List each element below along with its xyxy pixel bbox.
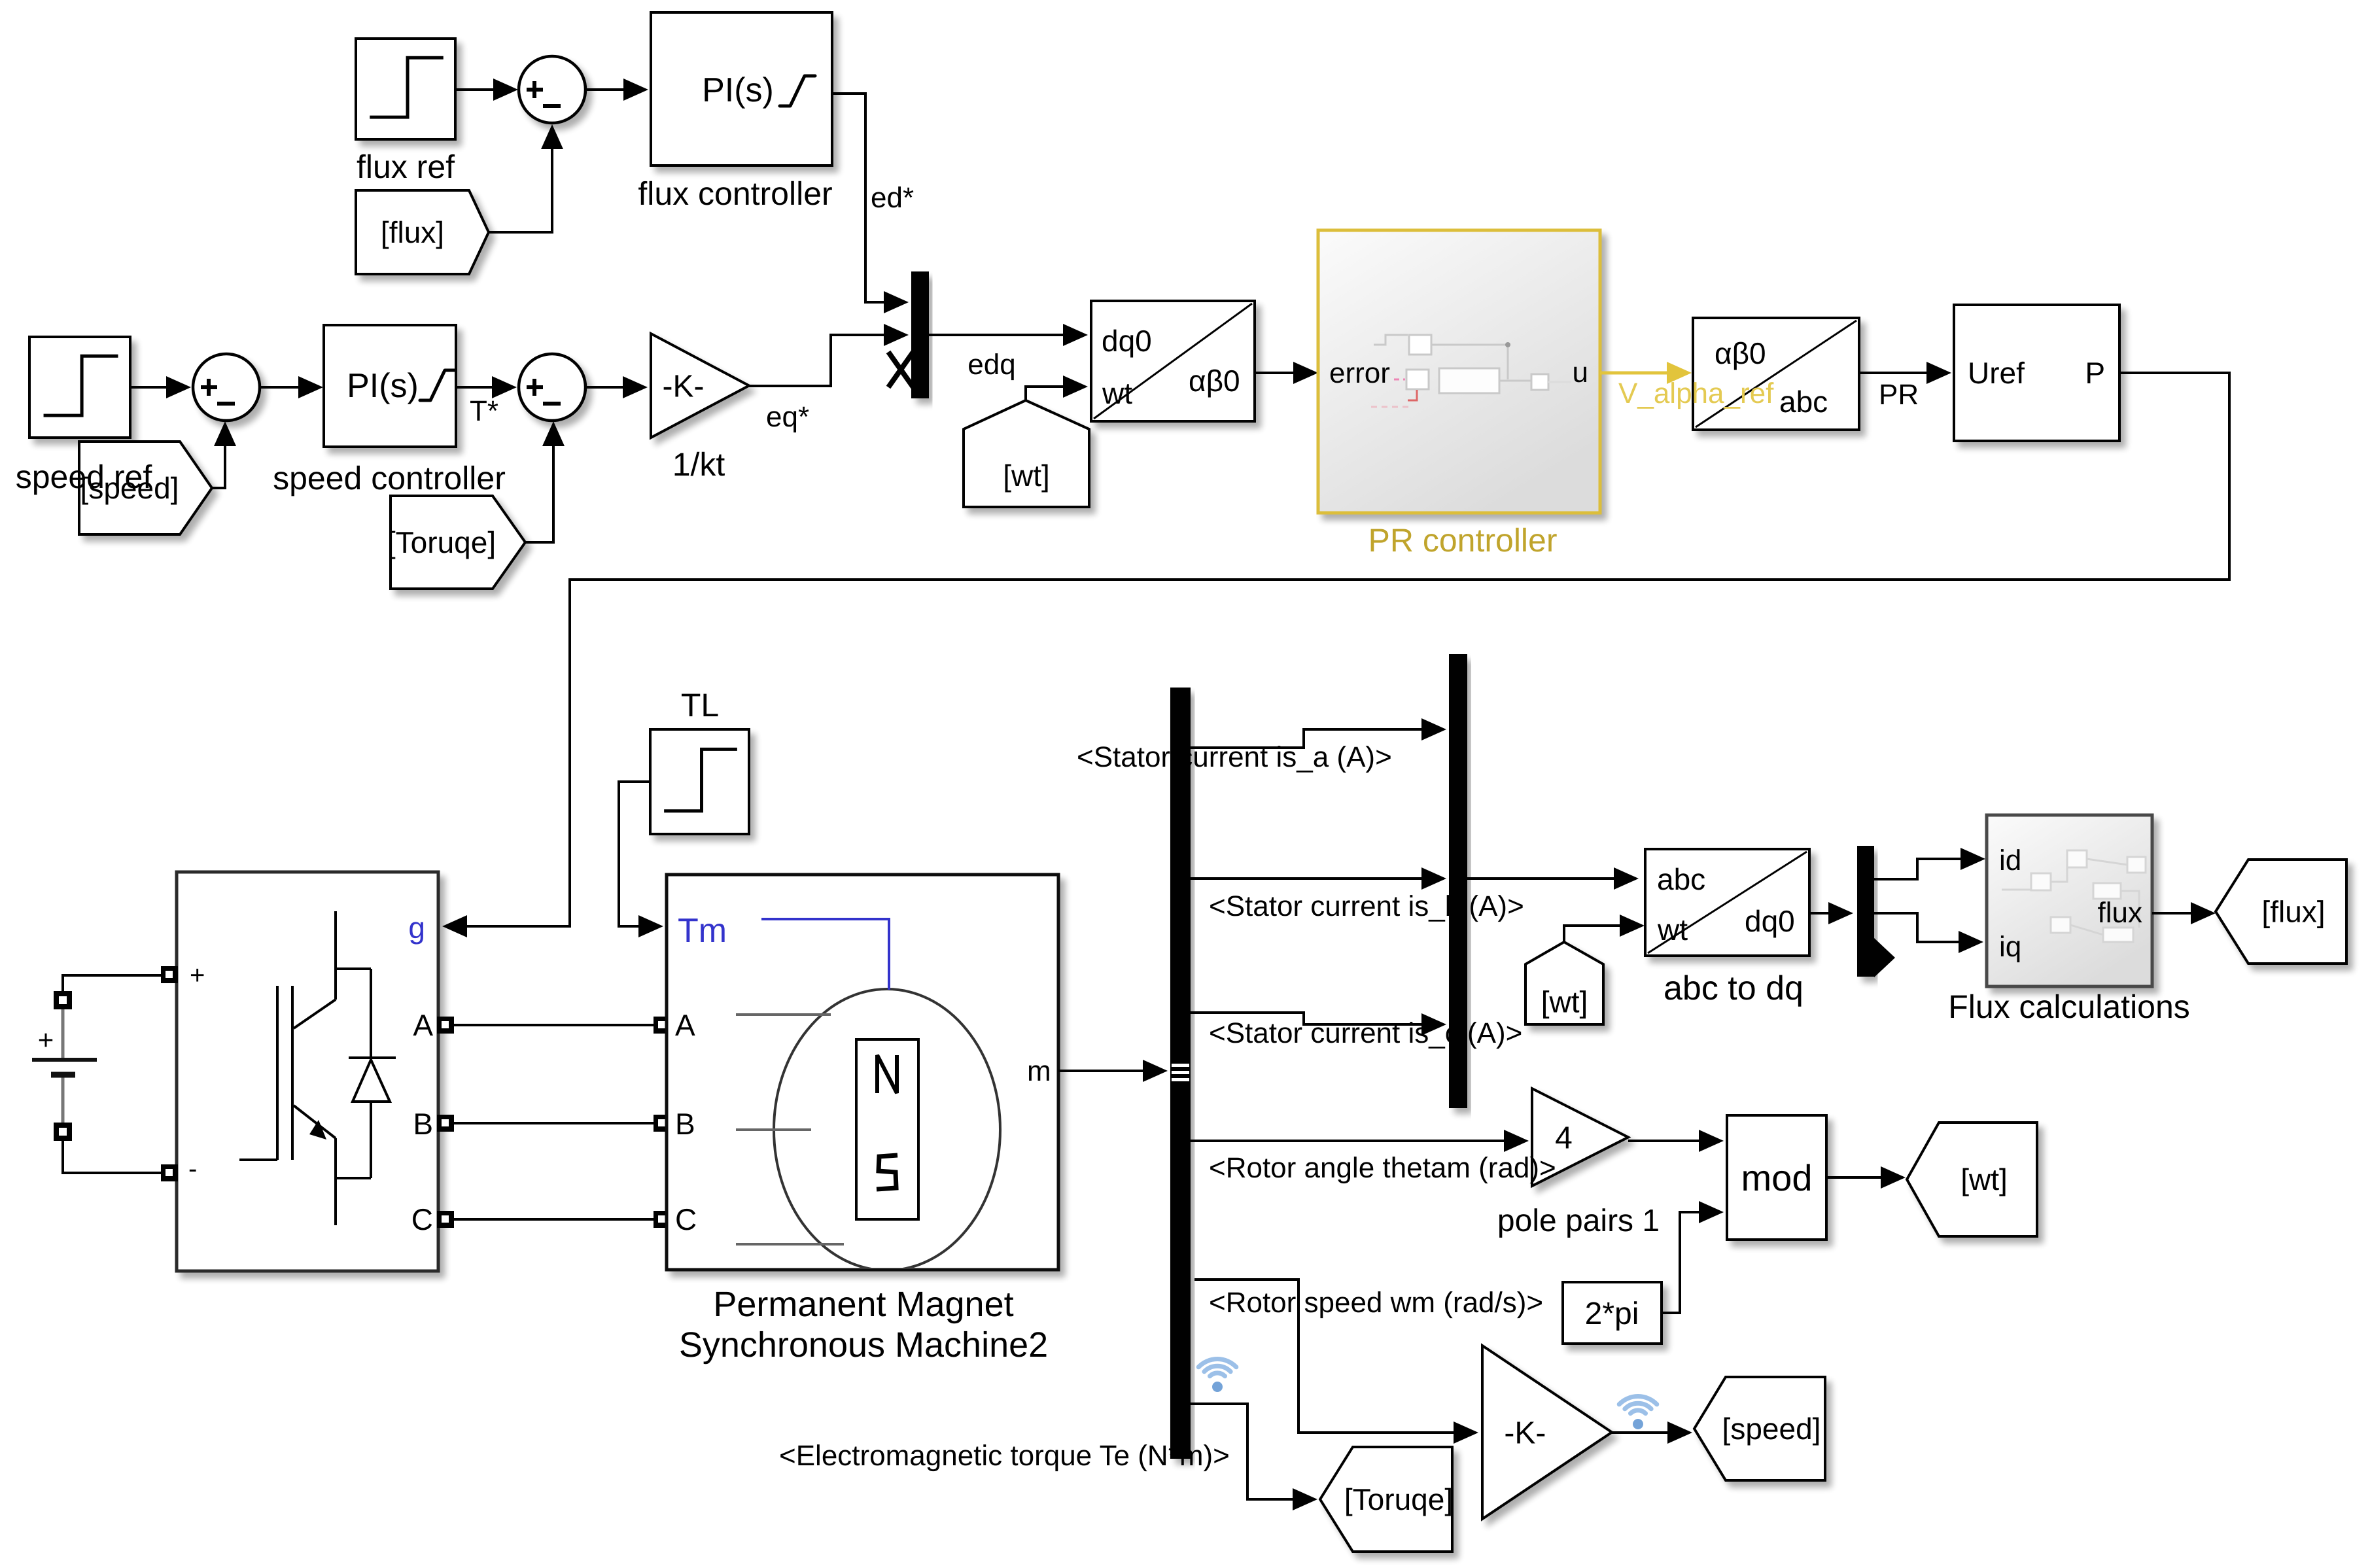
wifi icon on bus selector [1198, 1359, 1236, 1392]
svg-text:V_alpha_ref: V_alpha_ref [1618, 377, 1774, 409]
label abc to dq [1664, 969, 1804, 1007]
wire is_b bus selector to mux M2 [1191, 867, 1446, 890]
signal label PR [1879, 379, 1919, 411]
svg-text:αβ0: αβ0 [1715, 336, 1766, 370]
wire -K- to [speed] [1612, 1421, 1692, 1444]
wire flux controller to mux1 in1 [832, 94, 909, 313]
wire mux1 to dq0-ab0 block [929, 324, 1088, 346]
subsystem block Uref P [1954, 305, 2119, 441]
svg-text:iq: iq [1999, 931, 2021, 963]
svg-text:[Toruqe]: [Toruqe] [387, 525, 496, 559]
Goto tag [flux] [2216, 860, 2346, 964]
signal label T* [470, 395, 498, 427]
svg-text:wt: wt [1657, 913, 1688, 947]
wire torque to [Toruqe] [1191, 1404, 1317, 1510]
label speed ref [16, 459, 152, 495]
wire PR controller to ab0-abc (yellow) [1600, 362, 1692, 384]
wire speed controller to sum3 [456, 376, 517, 398]
demux bar D1 [1857, 846, 1895, 977]
signal label eq* [766, 401, 809, 433]
svg-text:error: error [1329, 357, 1390, 389]
svg-text:speed ref: speed ref [16, 459, 152, 495]
From tag [Toruqe] [387, 496, 525, 589]
svg-text:4: 4 [1555, 1121, 1573, 1155]
svg-text:[Toruqe]: [Toruqe] [1344, 1482, 1453, 1516]
wifi icon before [speed] [1619, 1397, 1657, 1429]
svg-text:mod: mod [1741, 1157, 1813, 1198]
svg-text:T*: T* [470, 395, 498, 427]
svg-text:Permanent Magnet: Permanent Magnet [713, 1285, 1013, 1324]
svg-text:PI(s): PI(s) [347, 367, 419, 405]
wire gain 4 to mod [1628, 1130, 1724, 1152]
wire step flux ref to sum1 [455, 78, 518, 101]
svg-text:[flux]: [flux] [2261, 895, 2325, 929]
svg-text:-K-: -K- [663, 369, 705, 404]
step source block flux ref [356, 39, 455, 139]
signal label Stator current is_b [1209, 890, 1524, 922]
svg-text:TL: TL [681, 687, 719, 723]
wire PMSM m to bus selector [1058, 1060, 1168, 1082]
mux M1 bar [911, 271, 929, 398]
wire [speed] to sum2 [212, 421, 236, 488]
wire dq0-ab0 to PR controller [1255, 362, 1318, 384]
svg-text:[flux]: [flux] [381, 215, 444, 249]
three-phase wire C inverter to PMSM [437, 1211, 671, 1228]
svg-text:<Rotor angle thetam (rad)>: <Rotor angle thetam (rad)> [1209, 1152, 1556, 1184]
wire demux iq to Flux calculations [1874, 913, 1983, 953]
step source block TL [650, 729, 749, 834]
transform block abc to dq0 [1645, 849, 1809, 956]
svg-text:[wt]: [wt] [1003, 459, 1050, 493]
three-phase wire A inverter to PMSM [437, 1017, 671, 1034]
svg-text:PR: PR [1879, 379, 1919, 411]
bus selector bar B1 [1170, 688, 1191, 1459]
Goto tag [speed] [1694, 1377, 1825, 1480]
svg-text:PI(s): PI(s) [702, 71, 774, 109]
wire rotor speed to gain -K- [1194, 1280, 1478, 1444]
unconnected port X on mux M1 [888, 352, 913, 387]
subsystem block PR controller [1318, 230, 1600, 513]
wire Uref P return to inverter g [442, 373, 2229, 937]
svg-text:Uref: Uref [1968, 356, 2025, 390]
label pole pairs 1 [1497, 1204, 1660, 1238]
svg-text:-: - [188, 1155, 197, 1183]
sum junction S3 (torque error) [519, 354, 585, 421]
constant block 2*pi [1563, 1282, 1662, 1344]
svg-text:[wt]: [wt] [1960, 1162, 2008, 1196]
inverter block (Universal Bridge) [161, 872, 438, 1271]
wire Flux calculations to [flux] [2152, 902, 2216, 924]
wire ab0-abc to Uref [1859, 362, 1951, 384]
wire 2*pi to mod [1662, 1201, 1724, 1313]
signal label V_alpha_ref [1618, 377, 1774, 409]
wire sum3 to gain 1/kt [585, 376, 648, 398]
svg-text:g: g [408, 911, 425, 945]
signal label Stator current is_c [1209, 1017, 1522, 1049]
svg-text:C: C [411, 1202, 433, 1236]
gain block pole pairs 1 (4) [1532, 1089, 1628, 1186]
svg-text:id: id [1999, 845, 2021, 877]
svg-text:eq*: eq* [766, 401, 809, 433]
signal label Stator current is_a [1077, 741, 1392, 773]
signal label Electromagnetic torque Te [779, 1440, 1230, 1472]
svg-text:u: u [1573, 357, 1588, 389]
wire is_c bus selector to mux M2 [1191, 1013, 1446, 1036]
wire mux M2 to abc-to-dq [1467, 867, 1639, 890]
wire mod to [wt] [1826, 1166, 1906, 1189]
svg-text:+: + [190, 961, 205, 990]
svg-text:A: A [413, 1008, 433, 1042]
wire demux id to Flux calculations [1874, 848, 1985, 879]
wire step speed ref to sum2 [130, 376, 191, 398]
signal label Rotor angle thetam [1209, 1152, 1556, 1184]
svg-text:flux: flux [2098, 897, 2142, 929]
step source block speed ref [29, 337, 130, 438]
label flux controller [638, 175, 832, 212]
subsystem block Flux calculations [1987, 815, 2152, 986]
PID block flux controller PI(s) [651, 12, 832, 166]
svg-text:[speed]: [speed] [1722, 1412, 1821, 1446]
svg-text:[wt]: [wt] [1541, 985, 1588, 1019]
svg-text:+: + [38, 1024, 54, 1055]
label speed controller [273, 460, 506, 497]
wire sum2 to speed controller [260, 376, 323, 398]
svg-text:m: m [1027, 1055, 1051, 1087]
transform block dq0 to alphabeta0 [1091, 301, 1255, 421]
wire is_a bus selector to mux M2 [1191, 718, 1446, 748]
sum junction S2 (speed error) [193, 354, 260, 421]
mux M2 bar [1449, 654, 1467, 1108]
svg-text:B: B [675, 1107, 695, 1141]
three-phase wire B inverter to PMSM [437, 1115, 671, 1132]
svg-text:Synchronous Machine2: Synchronous Machine2 [679, 1325, 1048, 1365]
signal label edq [967, 349, 1015, 381]
svg-text:pole pairs 1: pole pairs 1 [1497, 1204, 1660, 1238]
label TL [681, 687, 719, 723]
svg-text:<Stator current is_b (A)>: <Stator current is_b (A)> [1209, 890, 1524, 922]
wire rotor angle to gain pole pairs [1191, 1130, 1529, 1152]
svg-text:<Stator current is_a (A)>: <Stator current is_a (A)> [1077, 741, 1392, 773]
wire sum1 to flux controller [585, 78, 648, 101]
PID block speed controller PI(s) [324, 325, 456, 447]
wire [wt] to dq0-ab0 wt port [1026, 375, 1088, 400]
svg-text:<Electromagnetic torque Te (N*: <Electromagnetic torque Te (N*m)> [779, 1440, 1230, 1472]
label 1/kt [672, 446, 725, 483]
wire [wt] to abc-to-dq wt port [1564, 915, 1645, 942]
From tag [wt] (to dq0-ab0) [964, 400, 1089, 507]
svg-text:-K-: -K- [1504, 1416, 1546, 1450]
svg-text:B: B [413, 1107, 433, 1141]
svg-text:flux ref: flux ref [357, 148, 455, 185]
svg-text:ed*: ed* [871, 182, 914, 214]
From tag [speed] [79, 442, 212, 534]
svg-text:Flux calculations: Flux calculations [1948, 988, 2190, 1025]
label PR controller [1368, 522, 1558, 559]
From tag [flux] [356, 190, 489, 274]
svg-text:dq0: dq0 [1102, 324, 1152, 358]
Goto tag [wt] [1907, 1123, 2037, 1236]
label Permanent Magnet Synchronous Machine2 [679, 1285, 1048, 1365]
svg-text:1/kt: 1/kt [672, 446, 725, 483]
svg-text:dq0: dq0 [1745, 904, 1795, 938]
svg-text:wt: wt [1102, 376, 1132, 410]
signal label Rotor speed wm [1209, 1287, 1543, 1319]
svg-text:speed controller: speed controller [273, 460, 506, 497]
From tag [wt] (to abc-to-dq) [1525, 942, 1603, 1024]
gain block -K- (rad/s conversion) [1482, 1346, 1612, 1519]
signal label ed* [871, 182, 914, 214]
svg-text:A: A [675, 1008, 695, 1042]
math block mod [1727, 1115, 1826, 1240]
svg-text:2*pi: 2*pi [1585, 1297, 1639, 1331]
wire [Toruqe] to sum3 [525, 421, 565, 542]
PMSM block Permanent Magnet Synchronous Machine2 [667, 875, 1058, 1270]
svg-text:abc: abc [1657, 862, 1705, 896]
svg-text:P: P [2085, 356, 2105, 390]
wire TL to PMSM Tm [619, 782, 663, 937]
svg-text:C: C [675, 1202, 697, 1236]
label flux ref [357, 148, 455, 185]
svg-text:<Stator current is_c (A)>: <Stator current is_c (A)> [1209, 1017, 1522, 1049]
svg-text:<Rotor speed wm (rad/s)>: <Rotor speed wm (rad/s)> [1209, 1287, 1543, 1319]
svg-text:abc: abc [1779, 385, 1828, 419]
svg-text:edq: edq [967, 349, 1015, 381]
wire 1/kt to mux1 in2 [749, 324, 909, 386]
sum junction S1 (flux error) [519, 56, 585, 123]
label Flux calculations [1948, 988, 2190, 1025]
svg-text:flux controller: flux controller [638, 175, 832, 212]
svg-text:Tm: Tm [678, 912, 727, 950]
transform block alphabeta0 to abc [1693, 318, 1859, 430]
battery DC source [32, 975, 162, 1173]
svg-text:abc to dq: abc to dq [1664, 969, 1804, 1007]
wire abc-to-dq to demux [1809, 902, 1853, 924]
wire [flux] to sum1 [489, 124, 563, 232]
gain block 1/kt (-K-) [651, 334, 749, 438]
svg-text:αβ0: αβ0 [1189, 364, 1240, 398]
Goto tag [Toruqe] [1320, 1447, 1453, 1552]
svg-text:PR controller: PR controller [1368, 522, 1558, 559]
